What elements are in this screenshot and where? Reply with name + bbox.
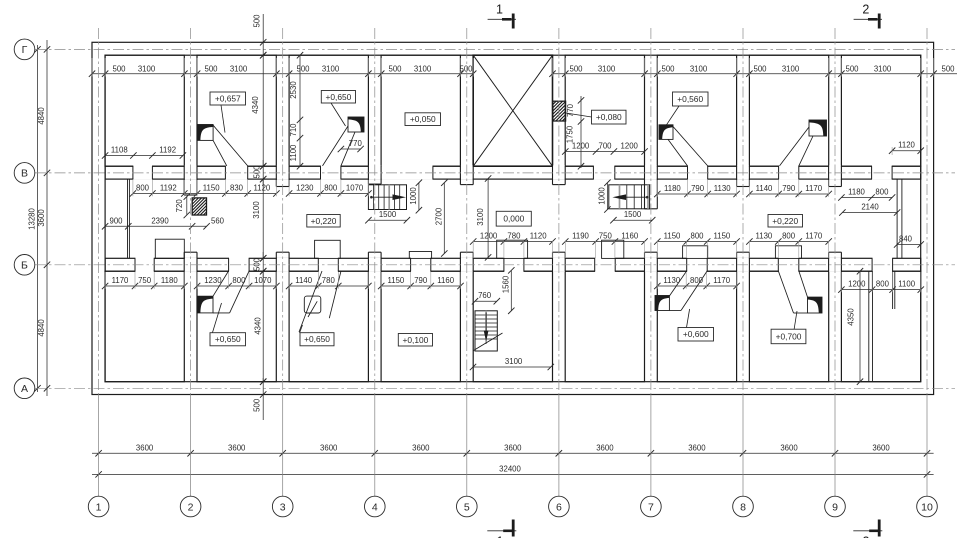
wall piers below wall В at interior axes (185, 166, 197, 180)
svg-text:Б: Б (21, 260, 28, 272)
svg-text:4340: 4340 (251, 96, 260, 114)
svg-text:9: 9 (832, 501, 838, 513)
dimension row 1200 700 1200 bay 6 top (565, 151, 644, 153)
vent mark bay 2 top (197, 125, 213, 141)
left dimension chain 4840 3600 4840 (46, 40, 48, 396)
dimension chain 2530 710 1100 bay 3 top room (299, 55, 301, 166)
svg-text:3600: 3600 (412, 443, 430, 452)
svg-text:+0,650: +0,650 (215, 334, 241, 344)
svg-text:1180: 1180 (161, 276, 178, 285)
dimension 4340 bay 2 bottom room (262, 271, 264, 382)
vent mark bay 8 top (809, 120, 827, 136)
stair flight in corridor bay 4 (368, 185, 406, 210)
svg-text:750: 750 (599, 232, 613, 241)
dimension 770 and 1750 vertical bay 6 (580, 96, 582, 168)
level mark +0,220 corridor left (307, 215, 340, 228)
axis extension lines below building (98, 395, 100, 497)
dimension 500 wall В (262, 160, 264, 185)
svg-text:4840: 4840 (37, 319, 46, 337)
vent funnel bay 2 bottom (213, 312, 230, 314)
svg-text:4: 4 (372, 501, 378, 513)
stair break line bay 5 (474, 333, 503, 351)
svg-text:500: 500 (459, 64, 473, 73)
svg-text:800: 800 (875, 188, 889, 197)
dimension row 900 2390 560 corridor bay 1-2 (105, 225, 207, 227)
vent flue box bay 3 bottom (304, 296, 321, 313)
svg-text:1070: 1070 (346, 184, 364, 193)
svg-text:3100: 3100 (874, 64, 892, 73)
svg-text:1180: 1180 (848, 188, 865, 197)
svg-text:3600: 3600 (596, 443, 614, 452)
svg-text:3600: 3600 (320, 443, 338, 452)
svg-text:3600: 3600 (37, 209, 46, 227)
svg-text:750: 750 (138, 276, 152, 285)
svg-text:1100: 1100 (898, 280, 915, 289)
svg-text:1: 1 (497, 535, 504, 538)
level mark +0,650 bay 3 top (321, 91, 355, 104)
dimension 2700 corridor (443, 183, 445, 254)
vent mark bay 2 bottom (197, 296, 213, 313)
svg-text:1500: 1500 (379, 210, 397, 219)
room bottom band bay 6 (565, 271, 644, 382)
svg-text:800: 800 (876, 280, 890, 289)
dimension row below wall В bay 3 (289, 193, 368, 195)
basement stair in bay 5 bottom room (475, 311, 497, 351)
svg-text:+0,220: +0,220 (772, 216, 798, 226)
door vestibule bay 7 (683, 246, 708, 259)
stair flight in corridor bay 6 (609, 185, 650, 209)
svg-text:2: 2 (862, 3, 869, 17)
level mark 0,000 corridor centre (496, 211, 531, 226)
dimension 1500 stair bay 6 (613, 219, 652, 221)
elevator shaft walls bay 5 (473, 55, 552, 166)
svg-text:+0,700: +0,700 (776, 331, 802, 341)
svg-text:760: 760 (478, 291, 492, 300)
dimension 1500 stair bay 4 (368, 219, 407, 221)
dimension row below wall Б bay 9 (841, 289, 920, 291)
outer wall of building, external face (92, 42, 934, 394)
svg-text:500: 500 (661, 64, 675, 73)
bottom dimension chain 3600 x9 (92, 452, 934, 454)
svg-text:+0,050: +0,050 (410, 114, 436, 124)
dimension 3100 corridor bay 5 (487, 179, 489, 258)
svg-text:1200: 1200 (621, 142, 639, 151)
svg-text:500: 500 (296, 64, 310, 73)
level mark +0,080 bay 6 top (592, 110, 627, 124)
dimension 1120 bay 9 top (892, 150, 921, 152)
svg-text:3100: 3100 (230, 64, 248, 73)
room bottom band bay 4 (381, 271, 460, 382)
svg-text:1130: 1130 (714, 184, 731, 193)
svg-text:800: 800 (232, 276, 246, 285)
svg-text:770: 770 (566, 103, 575, 117)
svg-text:3600: 3600 (228, 443, 246, 452)
dimension row below wall Б bay 7 (657, 285, 736, 287)
shaft cross diagonal 1 (473, 55, 552, 166)
room top band bay 9 (841, 55, 920, 166)
dimension row below wall В bay 7 (657, 193, 736, 195)
svg-text:790: 790 (782, 184, 796, 193)
svg-text:500: 500 (753, 64, 767, 73)
dimension 3100 bay 5 bottom room (473, 366, 551, 368)
svg-text:700: 700 (598, 142, 612, 151)
svg-text:1150: 1150 (388, 276, 405, 285)
svg-text:780: 780 (322, 276, 336, 285)
wall on axis Б (105, 258, 921, 271)
svg-text:560: 560 (211, 216, 225, 225)
room bottom band bay 5 (473, 271, 552, 382)
vent mark bay 3 top (348, 117, 364, 132)
svg-text:2390: 2390 (151, 216, 169, 225)
svg-text:500: 500 (204, 64, 218, 73)
level mark +0,560 bay 7 top (673, 92, 709, 106)
svg-text:1160: 1160 (621, 232, 638, 241)
svg-text:3100: 3100 (505, 357, 523, 366)
svg-text:2700: 2700 (435, 207, 444, 225)
door vestibule bay 4 (409, 252, 431, 259)
svg-text:830: 830 (230, 184, 244, 193)
svg-text:800: 800 (690, 232, 704, 241)
svg-text:4350: 4350 (847, 308, 856, 326)
leader line to level +0,560 (667, 106, 680, 125)
svg-text:3600: 3600 (780, 443, 798, 452)
room top band bay 2 (197, 55, 276, 166)
hatched duct block bay 6 top (553, 101, 566, 121)
svg-text:10: 10 (921, 501, 933, 513)
svg-text:500: 500 (845, 64, 859, 73)
svg-text:+0,600: +0,600 (683, 329, 709, 339)
svg-text:1130: 1130 (663, 276, 680, 285)
vent funnel bay 7 bottom (669, 310, 681, 312)
svg-text:1170: 1170 (713, 276, 730, 285)
stair walk line with arrow bay 4 (371, 196, 393, 198)
svg-text:1200: 1200 (848, 280, 866, 289)
left overall dimension 13280 (37, 45, 39, 392)
dimension row below wall Б bay 2 (197, 285, 276, 287)
room bottom band bay 7 (657, 271, 736, 382)
dimension 500 wall Б (262, 252, 264, 277)
svg-text:1150: 1150 (664, 232, 681, 241)
room top band bay 1 (105, 55, 184, 166)
dimension 3100 corridor bay 2 (262, 179, 264, 258)
svg-text:1000: 1000 (598, 187, 607, 205)
svg-text:3100: 3100 (598, 64, 616, 73)
vent funnel bay 2 top (213, 125, 248, 166)
svg-text:+0,080: +0,080 (596, 112, 622, 122)
axis bubbles 1-10 bottom (88, 496, 109, 517)
svg-text:900: 900 (109, 216, 123, 225)
level mark +0,100 bay 4 bottom (398, 334, 432, 347)
svg-text:1170: 1170 (805, 184, 822, 193)
dimension row above wall Б bay 6 (565, 241, 644, 243)
svg-text:5: 5 (464, 501, 470, 513)
dimension row below wall Б bay 4 (381, 285, 460, 287)
svg-text:3100: 3100 (138, 64, 156, 73)
svg-text:3: 3 (280, 501, 286, 513)
svg-text:+0,560: +0,560 (677, 94, 703, 104)
svg-text:800: 800 (782, 232, 796, 241)
dimension 760 basement stair (475, 300, 497, 302)
svg-text:1120: 1120 (898, 141, 915, 150)
vertical dimension 720 corridor (186, 197, 188, 215)
chimney block bay 3 corridor (315, 240, 341, 258)
room bottom band bay 2 (197, 271, 276, 382)
svg-text:В: В (21, 168, 28, 180)
svg-text:1230: 1230 (296, 184, 314, 193)
svg-text:1100: 1100 (289, 144, 298, 161)
vent funnel bay 8 bottom (794, 312, 808, 314)
door vestibule bay 8 (775, 246, 801, 259)
svg-text:3100: 3100 (414, 64, 432, 73)
svg-text:1170: 1170 (805, 232, 822, 241)
svg-text:1: 1 (496, 3, 503, 17)
level mark +0,050 bay 4 (405, 113, 441, 126)
dimension row below wall В bays 1-2 (133, 193, 277, 195)
svg-text:720: 720 (175, 199, 184, 213)
svg-text:1200: 1200 (480, 232, 498, 241)
room top band bay 7 (657, 55, 736, 166)
axis bubbles Г В Б А left (14, 39, 35, 60)
room top band bay 3 (289, 55, 368, 166)
door vestibule bay 6 (602, 240, 624, 258)
room top band bay 6 (565, 55, 644, 166)
room top band bay 4 (381, 55, 460, 166)
leader line to level +0,600 (687, 309, 690, 328)
stair down arrow bay 5 (485, 313, 487, 332)
dimension row 500/3100 along top rooms (92, 73, 473, 75)
level mark +0,220 corridor right (768, 215, 803, 228)
room bottom band bay 8 (749, 271, 828, 382)
svg-text:2: 2 (188, 501, 194, 513)
outer wall of building, internal face (105, 55, 921, 382)
svg-text:+0,657: +0,657 (215, 94, 241, 104)
svg-text:710: 710 (289, 123, 298, 137)
vertical axis lines 1-10 (98, 28, 100, 395)
dimension 840 bay 9 corridor (897, 244, 921, 246)
vent funnel bay 7 top (673, 127, 708, 166)
stair walk line with arrow bay 6 (625, 196, 647, 198)
svg-text:1150: 1150 (203, 184, 220, 193)
dimension 1000 stair bay 6 (606, 183, 608, 210)
short partition in bay 9 bottom room right (892, 271, 894, 309)
dimension 1000 stair bay 4 (418, 183, 420, 211)
hatched duct block in corridor bay 2 (192, 198, 206, 215)
svg-text:1180: 1180 (664, 184, 681, 193)
svg-text:1140: 1140 (756, 184, 773, 193)
svg-text:1000: 1000 (409, 187, 418, 205)
level mark +0,600 bay 7 bottom (678, 328, 714, 342)
dimension row below wall Б bay 1 (105, 285, 184, 287)
svg-text:1: 1 (96, 501, 102, 513)
section mark 1 bottom (487, 530, 516, 532)
room bottom band bay 1 (105, 271, 184, 382)
svg-text:500: 500 (253, 165, 262, 179)
leader line to level +0,650 bay 3 top (331, 103, 346, 126)
svg-text:1192: 1192 (160, 184, 177, 193)
vent mark bay 8 bottom (808, 297, 823, 313)
svg-text:3100: 3100 (252, 201, 261, 219)
vent funnel bay 3 bottom (299, 271, 322, 332)
svg-text:1170: 1170 (112, 276, 129, 285)
door openings in wall Б (135, 258, 153, 273)
partition wall in bay 1 corridor room (127, 179, 129, 258)
dimension 1560 basement stair (510, 270, 512, 310)
svg-text:3600: 3600 (136, 443, 154, 452)
svg-text:13280: 13280 (28, 207, 37, 229)
svg-text:1150: 1150 (714, 232, 731, 241)
svg-text:6: 6 (556, 501, 562, 513)
dimension row below wall Б bay 3 (289, 285, 368, 287)
dimension 2140 bay 9 corridor (842, 212, 897, 214)
svg-text:1140: 1140 (295, 276, 312, 285)
horizontal axis lines Г В Б А (35, 48, 955, 50)
dimension row below wall В bay 9 (841, 197, 892, 199)
bottom overall dimension 32400 (92, 473, 934, 475)
svg-text:3100: 3100 (322, 64, 340, 73)
svg-text:500: 500 (941, 64, 955, 73)
svg-text:4840: 4840 (37, 107, 46, 125)
leader line to level +0,700 (794, 311, 797, 330)
svg-text:2530: 2530 (289, 81, 298, 99)
dimension 770 bay 3 top (341, 148, 361, 150)
svg-text:840: 840 (899, 235, 913, 244)
svg-text:1230: 1230 (204, 276, 222, 285)
svg-text:3100: 3100 (476, 208, 485, 226)
wall on axis В (105, 166, 921, 179)
svg-text:1750: 1750 (566, 125, 575, 143)
svg-text:500: 500 (388, 64, 402, 73)
svg-text:1192: 1192 (159, 146, 176, 155)
door openings in wall В (133, 165, 152, 180)
svg-text:32400: 32400 (499, 464, 521, 473)
svg-text:1160: 1160 (437, 276, 454, 285)
svg-text:3100: 3100 (690, 64, 708, 73)
room top band bay 8 (749, 55, 828, 166)
svg-text:790: 790 (414, 276, 428, 285)
leader line to level +0,650 bay 3 bottom (300, 325, 303, 333)
svg-text:500: 500 (253, 14, 262, 28)
wall piers above wall Б at interior axes (185, 258, 197, 272)
door vestibule bay 5 (497, 240, 528, 258)
vent funnel bay 8 top (780, 127, 810, 166)
svg-text:1120: 1120 (254, 184, 271, 193)
svg-text:3600: 3600 (688, 443, 706, 452)
svg-text:8: 8 (740, 501, 746, 513)
dimension 500 wall Г (262, 14, 264, 57)
svg-text:3600: 3600 (872, 443, 890, 452)
svg-text:+0,220: +0,220 (311, 216, 337, 226)
svg-text:3100: 3100 (782, 64, 800, 73)
svg-text:800: 800 (136, 184, 150, 193)
svg-text:2: 2 (863, 535, 870, 538)
shaft cross diagonal 2 (473, 55, 552, 166)
svg-text:770: 770 (349, 139, 363, 148)
svg-text:7: 7 (648, 501, 654, 513)
svg-text:500: 500 (569, 64, 583, 73)
dimension 1108 1192 above wall В bay 1 (105, 155, 183, 157)
dimension 500 wall А (262, 378, 264, 420)
svg-text:500: 500 (112, 64, 126, 73)
dimension 4350 bay 9 bottom room (859, 271, 861, 382)
room bottom band bay 3 (289, 271, 368, 382)
svg-text:800: 800 (324, 184, 338, 193)
dimension row above wall Б bay 8 (749, 241, 828, 243)
svg-text:0,000: 0,000 (503, 214, 524, 224)
svg-text:790: 790 (691, 184, 705, 193)
level mark +0,657 bay 2 top (210, 92, 246, 105)
level mark +0,650 bay 2 bottom (210, 333, 246, 346)
vent mark bay 7 bottom (655, 296, 669, 311)
svg-text:4340: 4340 (253, 317, 262, 335)
svg-text:1130: 1130 (756, 232, 773, 241)
svg-text:+0,100: +0,100 (402, 335, 428, 345)
leader line to level +0,657 (221, 105, 225, 133)
dimension row above wall Б bay 7 (657, 241, 736, 243)
partition wall in bay 9 bottom room (868, 271, 870, 382)
vent mark bay 7 top (659, 125, 673, 140)
svg-text:А: А (21, 383, 28, 395)
leader line to level +0,080 (566, 113, 592, 117)
svg-text:1500: 1500 (624, 210, 642, 219)
svg-text:1190: 1190 (572, 232, 589, 241)
svg-text:Г: Г (22, 44, 28, 56)
svg-text:+0,650: +0,650 (304, 334, 330, 344)
leader line to level +0,650 bay 2 bottom (213, 303, 222, 333)
svg-text:1108: 1108 (111, 146, 128, 155)
svg-text:500: 500 (253, 398, 262, 412)
door vestibule bay 1 (155, 239, 184, 258)
room bottom band bay 9 (841, 271, 920, 382)
svg-text:2140: 2140 (861, 203, 879, 212)
partition wall in bay 9 corridor (896, 179, 898, 258)
dimension row below wall В bay 8 (749, 193, 828, 195)
dimension row above wall Б bay 5 (473, 241, 552, 243)
svg-text:+0,650: +0,650 (325, 92, 351, 102)
level mark +0,700 bay 8 bottom (771, 329, 806, 344)
svg-text:500: 500 (253, 257, 262, 271)
level mark +0,650 bay 3 bottom (300, 333, 334, 346)
section mark 2 bottom (853, 530, 882, 532)
section mark 2 top (854, 18, 882, 20)
svg-text:1560: 1560 (502, 275, 511, 293)
svg-text:1120: 1120 (530, 232, 547, 241)
svg-text:3600: 3600 (504, 443, 522, 452)
vent funnel bay 3 top (323, 126, 349, 166)
svg-text:800: 800 (690, 276, 704, 285)
svg-text:780: 780 (507, 232, 521, 241)
dimension 4340 bay 2 top room (262, 55, 264, 166)
section mark 1 top (488, 18, 516, 20)
